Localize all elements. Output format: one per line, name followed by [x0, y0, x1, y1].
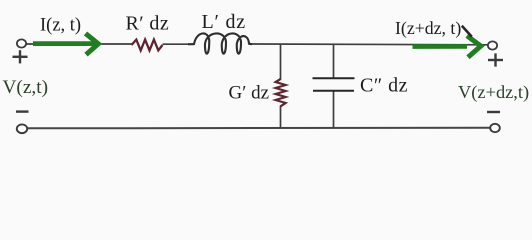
svg-text:R′ dz: R′ dz: [126, 12, 170, 34]
tick mark after I(z+dz,t) label: [462, 26, 472, 37]
polarity plus top-left: [13, 50, 28, 63]
resistor R' dz (series zigzag): [132, 40, 163, 51]
wire shunt G branch vertical: [280, 44, 282, 80]
current arrow I(z+dz,t) right green: [413, 36, 481, 57]
capacitor C'' dz plates: [313, 78, 355, 91]
wire bottom horizontal: [27, 127, 490, 130]
wire top horizontal left: [26, 43, 132, 45]
terminal circle top-right: [488, 41, 497, 49]
svg-text:I(z, t): I(z, t): [40, 16, 81, 36]
svg-text:I(z+dz, t): I(z+dz, t): [395, 18, 461, 39]
polarity minus bottom-right: [487, 111, 500, 113]
svg-text:V(z,t): V(z,t): [3, 77, 49, 98]
wire shunt C branch vertical: [333, 44, 335, 78]
svg-text:C″ dz: C″ dz: [360, 75, 408, 97]
terminal circle bottom-left: [17, 124, 27, 133]
terminal circle top-left: [17, 39, 26, 47]
svg-text:G′ dz: G′ dz: [229, 82, 270, 103]
polarity plus top-right: [488, 53, 503, 66]
terminal circle bottom-right: [490, 124, 500, 132]
resistor G' dz (shunt zigzag): [276, 79, 286, 106]
polarity minus bottom-left: [16, 110, 29, 112]
wire top horizontal right: [251, 43, 488, 46]
wire top horizontal mid: [163, 43, 190, 45]
inductor L' dz (series coil): [188, 33, 252, 53]
svg-text:V(z+dz,t): V(z+dz,t): [458, 82, 529, 103]
current arrow I(z,t) left green: [33, 33, 98, 54]
svg-text:L′ dz: L′ dz: [202, 11, 246, 33]
